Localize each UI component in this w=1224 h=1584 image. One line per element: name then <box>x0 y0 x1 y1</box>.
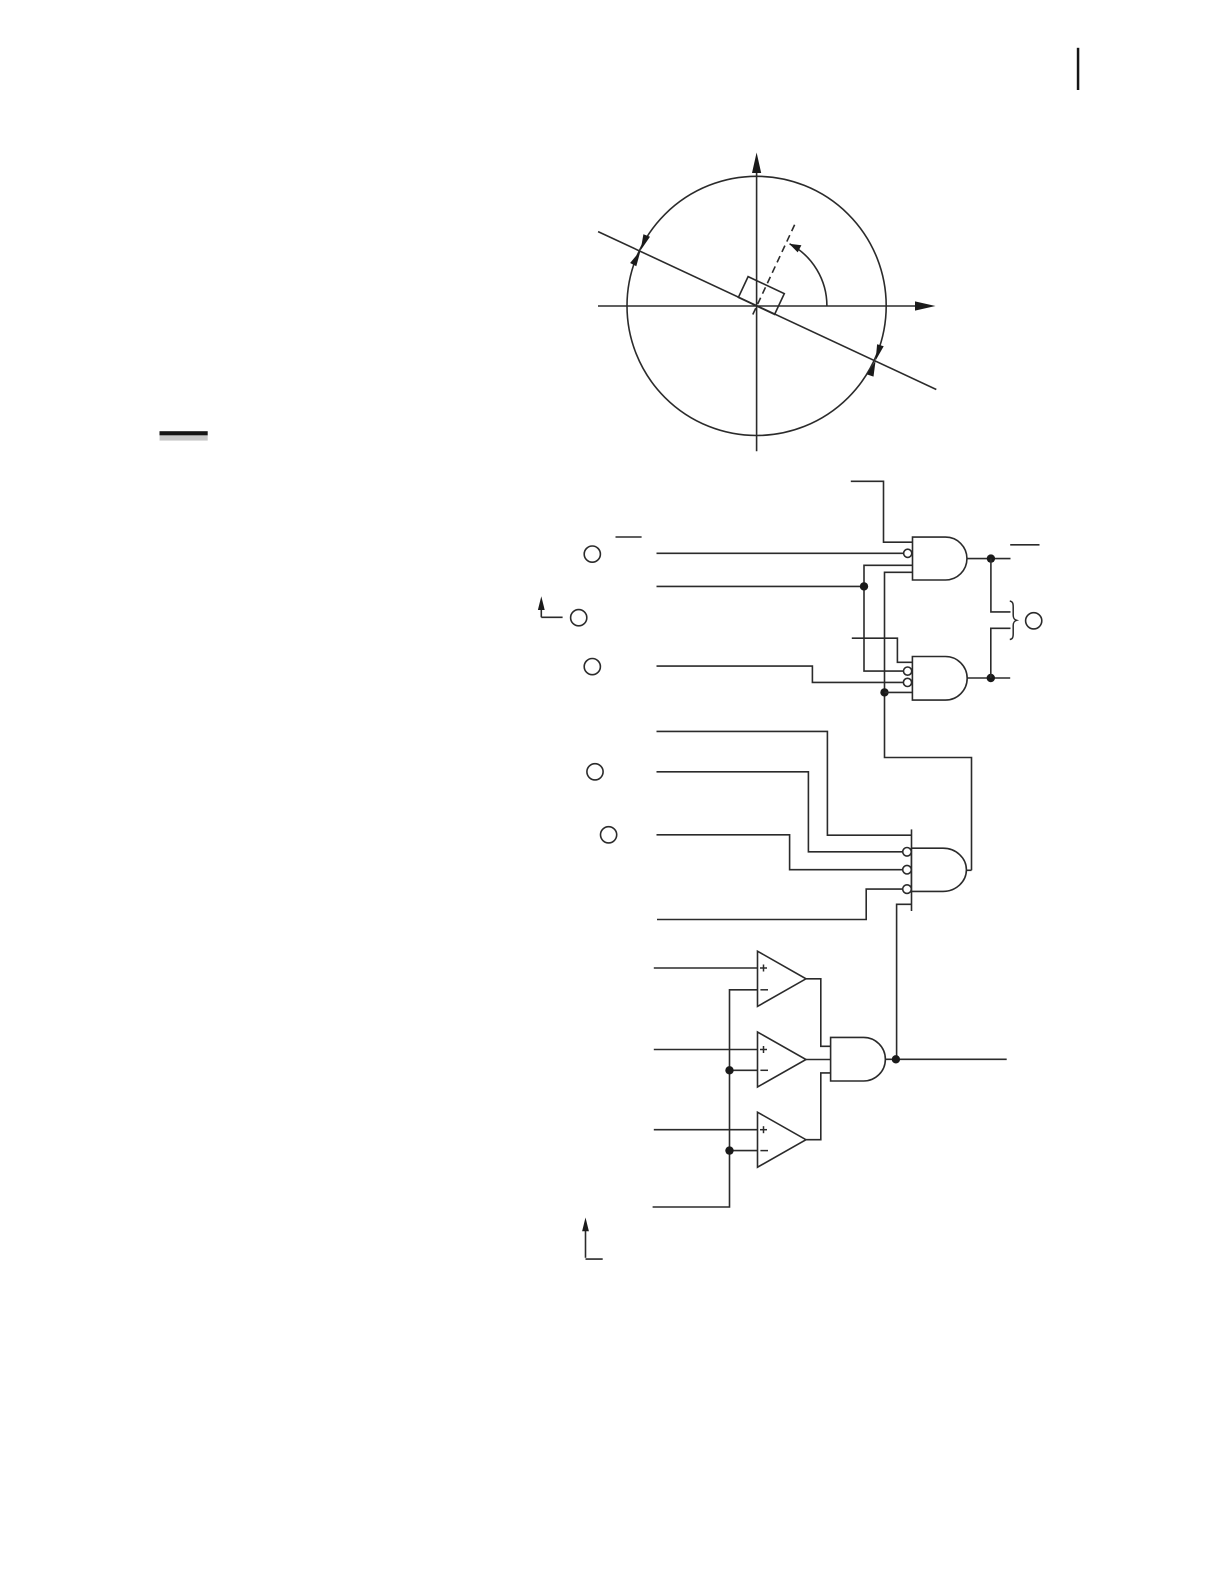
U3 minus <box>760 1150 768 1152</box>
junction dot F <box>725 1146 733 1154</box>
angle arc <box>790 244 827 306</box>
junction dot C <box>987 554 995 562</box>
highlighted rule (left margin) <box>160 431 208 440</box>
wire brace upper arm <box>991 559 1011 612</box>
U3 + input wire <box>654 1129 758 1131</box>
junction dot B <box>880 688 888 696</box>
overline at G1 output <box>1010 544 1039 546</box>
callout circle 1 <box>584 546 600 562</box>
callout circle 4 <box>587 764 603 780</box>
right-angle box <box>738 277 784 315</box>
AND gate G4 <box>831 1037 886 1081</box>
wire G1 input 3 vertical <box>864 565 913 671</box>
change bar (top right margin) <box>1077 48 1080 90</box>
callout circle 5 <box>601 827 617 843</box>
AND gate G1 <box>913 537 967 580</box>
junction dot E <box>725 1066 733 1074</box>
G3 input bubble 3 <box>903 885 912 894</box>
wire input 5 <box>657 772 903 852</box>
wire input 4 <box>657 731 912 835</box>
lower-right intersection arrowheads <box>867 344 884 376</box>
junction dot G <box>892 1055 900 1063</box>
G3 bottom input wire from G4 output <box>897 904 912 1059</box>
G1 input bubble <box>904 549 912 557</box>
U1 minus <box>760 989 768 991</box>
junction dot D <box>987 674 995 682</box>
callout circle 2 <box>571 610 587 626</box>
horizontal axis <box>598 301 936 310</box>
callout circle 3 <box>584 659 600 675</box>
G2 output wire <box>967 677 1010 679</box>
wire input 2 <box>657 585 865 587</box>
U3 plus <box>760 1126 767 1133</box>
G3 input bubble 2 <box>903 865 912 874</box>
axis marker 2 <box>582 1218 603 1260</box>
bus wire to U3 minus <box>730 1150 758 1152</box>
wire G1 input 4 / G2 input 4 vertical <box>885 572 972 870</box>
U2 plus <box>760 1046 767 1053</box>
G1 output wire <box>967 558 1011 560</box>
wire brace lower arm <box>991 628 1011 678</box>
circle <box>627 176 886 435</box>
G2 input bubble 2 <box>903 678 911 686</box>
axis marker 1 <box>538 596 563 617</box>
brace <box>1010 601 1017 640</box>
comparator U3 <box>758 1112 807 1167</box>
callout circle 6 <box>1026 613 1042 629</box>
diagonal line <box>598 232 936 390</box>
bus wire to U2 minus <box>730 1069 758 1071</box>
comparator U2 <box>758 1032 807 1087</box>
wire input 6 <box>657 835 903 870</box>
U2 minus <box>760 1069 768 1071</box>
U1 output wire <box>806 979 831 1047</box>
angle arc arrowhead <box>789 244 801 253</box>
wire input 7 <box>657 889 903 919</box>
inverting bus vertical <box>653 990 758 1207</box>
wire input 3 <box>657 666 904 682</box>
G2 input bubble 1 <box>904 667 912 675</box>
G3 output wire <box>966 869 971 871</box>
gate G1 input stub (top hook) <box>851 481 913 542</box>
U1 + input wire <box>654 967 758 969</box>
AND gate G2 <box>912 657 967 701</box>
wire G2 input 4 <box>885 691 913 693</box>
junction dot A <box>860 582 868 590</box>
U1 plus <box>760 965 767 972</box>
upper-left intersection arrowheads <box>630 234 650 266</box>
AND gate G3 input bar <box>911 829 913 911</box>
G3 input bubble 1 <box>903 848 912 857</box>
U2 output wire <box>806 1059 831 1061</box>
U3 output wire <box>806 1073 831 1140</box>
overline above callout 1 <box>616 536 642 538</box>
AND gate G3 <box>912 848 967 891</box>
G4 output wire <box>885 1058 1006 1060</box>
dashed radius line <box>753 223 796 315</box>
gate G2 input stub <box>852 638 913 662</box>
comparator U1 <box>758 951 807 1006</box>
wire input 1 <box>657 552 904 554</box>
vertical axis <box>752 153 761 452</box>
U2 + input wire <box>654 1049 758 1051</box>
